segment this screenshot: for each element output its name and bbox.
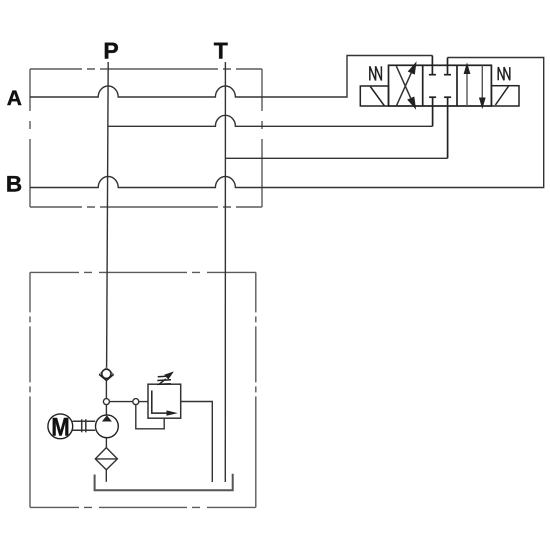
wire: P branch (mid line) with hop at T <box>108 115 432 126</box>
wire: valve top port drop from line B <box>447 58 449 75</box>
spring left (NN zigzag) <box>370 66 382 80</box>
relief valve spring and adjustment arrow <box>157 371 174 384</box>
wire: valve top port drop from line A <box>431 56 433 75</box>
svg-text:B: B <box>6 171 22 196</box>
wire: valve bottom port to T branch <box>447 97 449 158</box>
valve right position parallel arrows <box>464 62 486 109</box>
power unit enclosure (dash-dot box) <box>30 272 256 507</box>
coupling shaft <box>73 419 96 432</box>
solenoid right (box with diagonal) <box>491 86 519 106</box>
tank (open reservoir) <box>95 474 233 490</box>
motor M <box>48 414 73 439</box>
pump <box>96 415 119 438</box>
wire: line A with crossover hops at P and T <box>30 56 432 98</box>
filter (diamond) <box>95 448 117 470</box>
wire: relief valve outlet to tank <box>181 402 213 483</box>
svg-text:A: A <box>7 87 22 110</box>
spring right (NN zigzag) <box>498 67 510 80</box>
relief valve body <box>148 384 181 418</box>
wire: P vertical line <box>107 62 109 368</box>
pump outlet triangle <box>102 415 112 421</box>
wire: T vertical line <box>224 62 226 482</box>
wire: T branch line to valve <box>225 157 447 159</box>
relief valve pilot line <box>136 405 164 429</box>
manifold enclosure (dash-dot box) <box>30 69 262 207</box>
valve U1 body (three position boxes) <box>389 65 492 106</box>
wire: line B with crossover hops at P and T, riser to valve right <box>30 58 544 188</box>
svg-text:M: M <box>51 414 70 442</box>
junction node 2 <box>133 399 139 405</box>
junction node 1 <box>103 399 109 405</box>
wire: valve bottom port to mid line <box>432 97 434 126</box>
valve left position crossed arrows <box>396 61 416 110</box>
svg-text:P: P <box>103 38 118 64</box>
valve center position blocked port caps <box>429 75 451 98</box>
wire: pump to filter <box>105 438 107 448</box>
wire: junction line to relief valve inlet <box>106 401 148 403</box>
wire: check valve to junction <box>105 380 107 414</box>
wire: filter suction stub into tank <box>105 470 107 482</box>
svg-text:T: T <box>214 38 228 64</box>
check valve (ball in seat) <box>99 368 113 381</box>
solenoid left (box with diagonal) <box>360 86 388 106</box>
relief valve internal flow arrow <box>152 391 178 416</box>
